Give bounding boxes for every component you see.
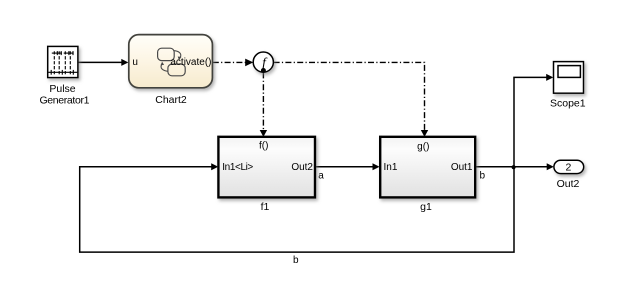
svg-text:Scope1: Scope1 [550, 97, 586, 109]
label Pulse Generator1 [39, 83, 89, 107]
wire feedback: junction down, left, up to f1 In1 (signal b) [80, 163, 514, 252]
wire function-call split down branch to f1 trigger (dash-dot) [260, 72, 267, 136]
wire junction up to Scope1 [514, 74, 553, 167]
svg-text:g(): g() [417, 141, 429, 152]
block Scope1 [554, 62, 584, 94]
block Out2 outport [554, 160, 584, 173]
block f1 subsystem [218, 137, 315, 198]
svg-text:a: a [318, 171, 324, 182]
svg-text:f1: f1 [261, 201, 270, 213]
svg-text:activate(): activate() [170, 57, 211, 68]
svg-text:Out2: Out2 [557, 178, 580, 190]
svg-text:g1: g1 [420, 201, 432, 213]
block Chart2 [129, 35, 213, 88]
wire Chart2 activate() to function-call split (dash-dot) [213, 59, 254, 67]
svg-text:b: b [293, 255, 299, 266]
svg-text:In1<Li>: In1<Li> [222, 162, 253, 173]
wire function-call split right branch to g1 trigger (dash-dot) [274, 62, 429, 136]
wire g1 Out1 to junction (signal b) [476, 166, 514, 168]
block function-call split [253, 52, 273, 73]
svg-text:Out2: Out2 [291, 162, 313, 173]
wire Pulse Generator1 output to Chart2 input u [78, 59, 128, 66]
svg-text:Out1: Out1 [451, 162, 473, 173]
svg-text:u: u [132, 57, 138, 68]
wire junction right to Out2 [514, 163, 554, 170]
wire f1 Out2 to g1 In1 (signal a) [316, 163, 380, 170]
Scope1 screen [558, 66, 580, 78]
Chart2 stateflow icon transition arrows [161, 51, 182, 72]
svg-text:In1: In1 [384, 162, 398, 173]
Pulse Generator1 waveform icon [48, 51, 77, 75]
junction dot on signal b [511, 165, 515, 169]
svg-text:Pulse: Pulse [49, 83, 75, 95]
block g1 subsystem [380, 137, 475, 198]
svg-text:Chart2: Chart2 [155, 94, 187, 106]
function-call split output port dot [261, 68, 266, 73]
block Pulse Generator1 [48, 46, 78, 77]
svg-text:Generator1: Generator1 [39, 95, 89, 107]
Chart2 stateflow icon state 1 [158, 48, 175, 60]
Chart2 stateflow icon state 2 [168, 64, 185, 76]
svg-text:2: 2 [565, 161, 571, 173]
svg-text:b: b [480, 170, 486, 181]
svg-text:f(): f() [259, 141, 268, 152]
